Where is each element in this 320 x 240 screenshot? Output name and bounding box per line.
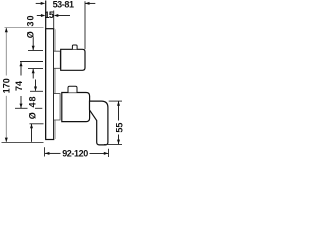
dim 53-81	[36, 2, 96, 5]
knob sleeve	[54, 51, 60, 68]
dim O30 extensions	[28, 50, 43, 52]
svg-text:74: 74	[14, 81, 24, 91]
dim 170	[5, 28, 8, 142]
dim 92-120	[45, 152, 108, 155]
temperature knob U1	[61, 49, 85, 70]
dim 74 extension bottom	[15, 107, 28, 109]
svg-text:15: 15	[44, 10, 53, 20]
dim O30	[32, 38, 35, 79]
dim 92-120 extensions	[44, 147, 46, 156]
wall line	[45, 1, 47, 139]
53-81 right extension line	[84, 1, 86, 49]
lower sleeve	[54, 94, 60, 120]
dim O48	[30, 80, 37, 142]
dim 170 extension bottom (baseline)	[2, 142, 44, 144]
dim 15	[37, 14, 70, 17]
plate front extension line (for 15 dim)	[53, 11, 55, 29]
dim O48 extensions	[30, 90, 43, 92]
lower nub	[68, 86, 77, 92]
svg-text:53-81: 53-81	[53, 0, 74, 10]
knob nub	[72, 45, 77, 49]
dim 55 extensions	[109, 100, 122, 102]
svg-text:92-120: 92-120	[62, 148, 88, 158]
svg-text:55: 55	[114, 123, 124, 133]
shut-off valve body	[62, 93, 90, 122]
dim 74	[20, 62, 23, 108]
escutcheon plate	[46, 29, 54, 140]
svg-text:Ø 48: Ø 48	[28, 95, 38, 119]
svg-text:170: 170	[1, 78, 11, 93]
dim 170 extension top	[5, 26, 44, 28]
plate front shadow line	[55, 29, 57, 139]
dim 55	[117, 101, 120, 144]
dim 74 extension top	[20, 61, 43, 63]
svg-text:Ø 30: Ø 30	[26, 14, 36, 38]
lever handle	[90, 101, 108, 145]
